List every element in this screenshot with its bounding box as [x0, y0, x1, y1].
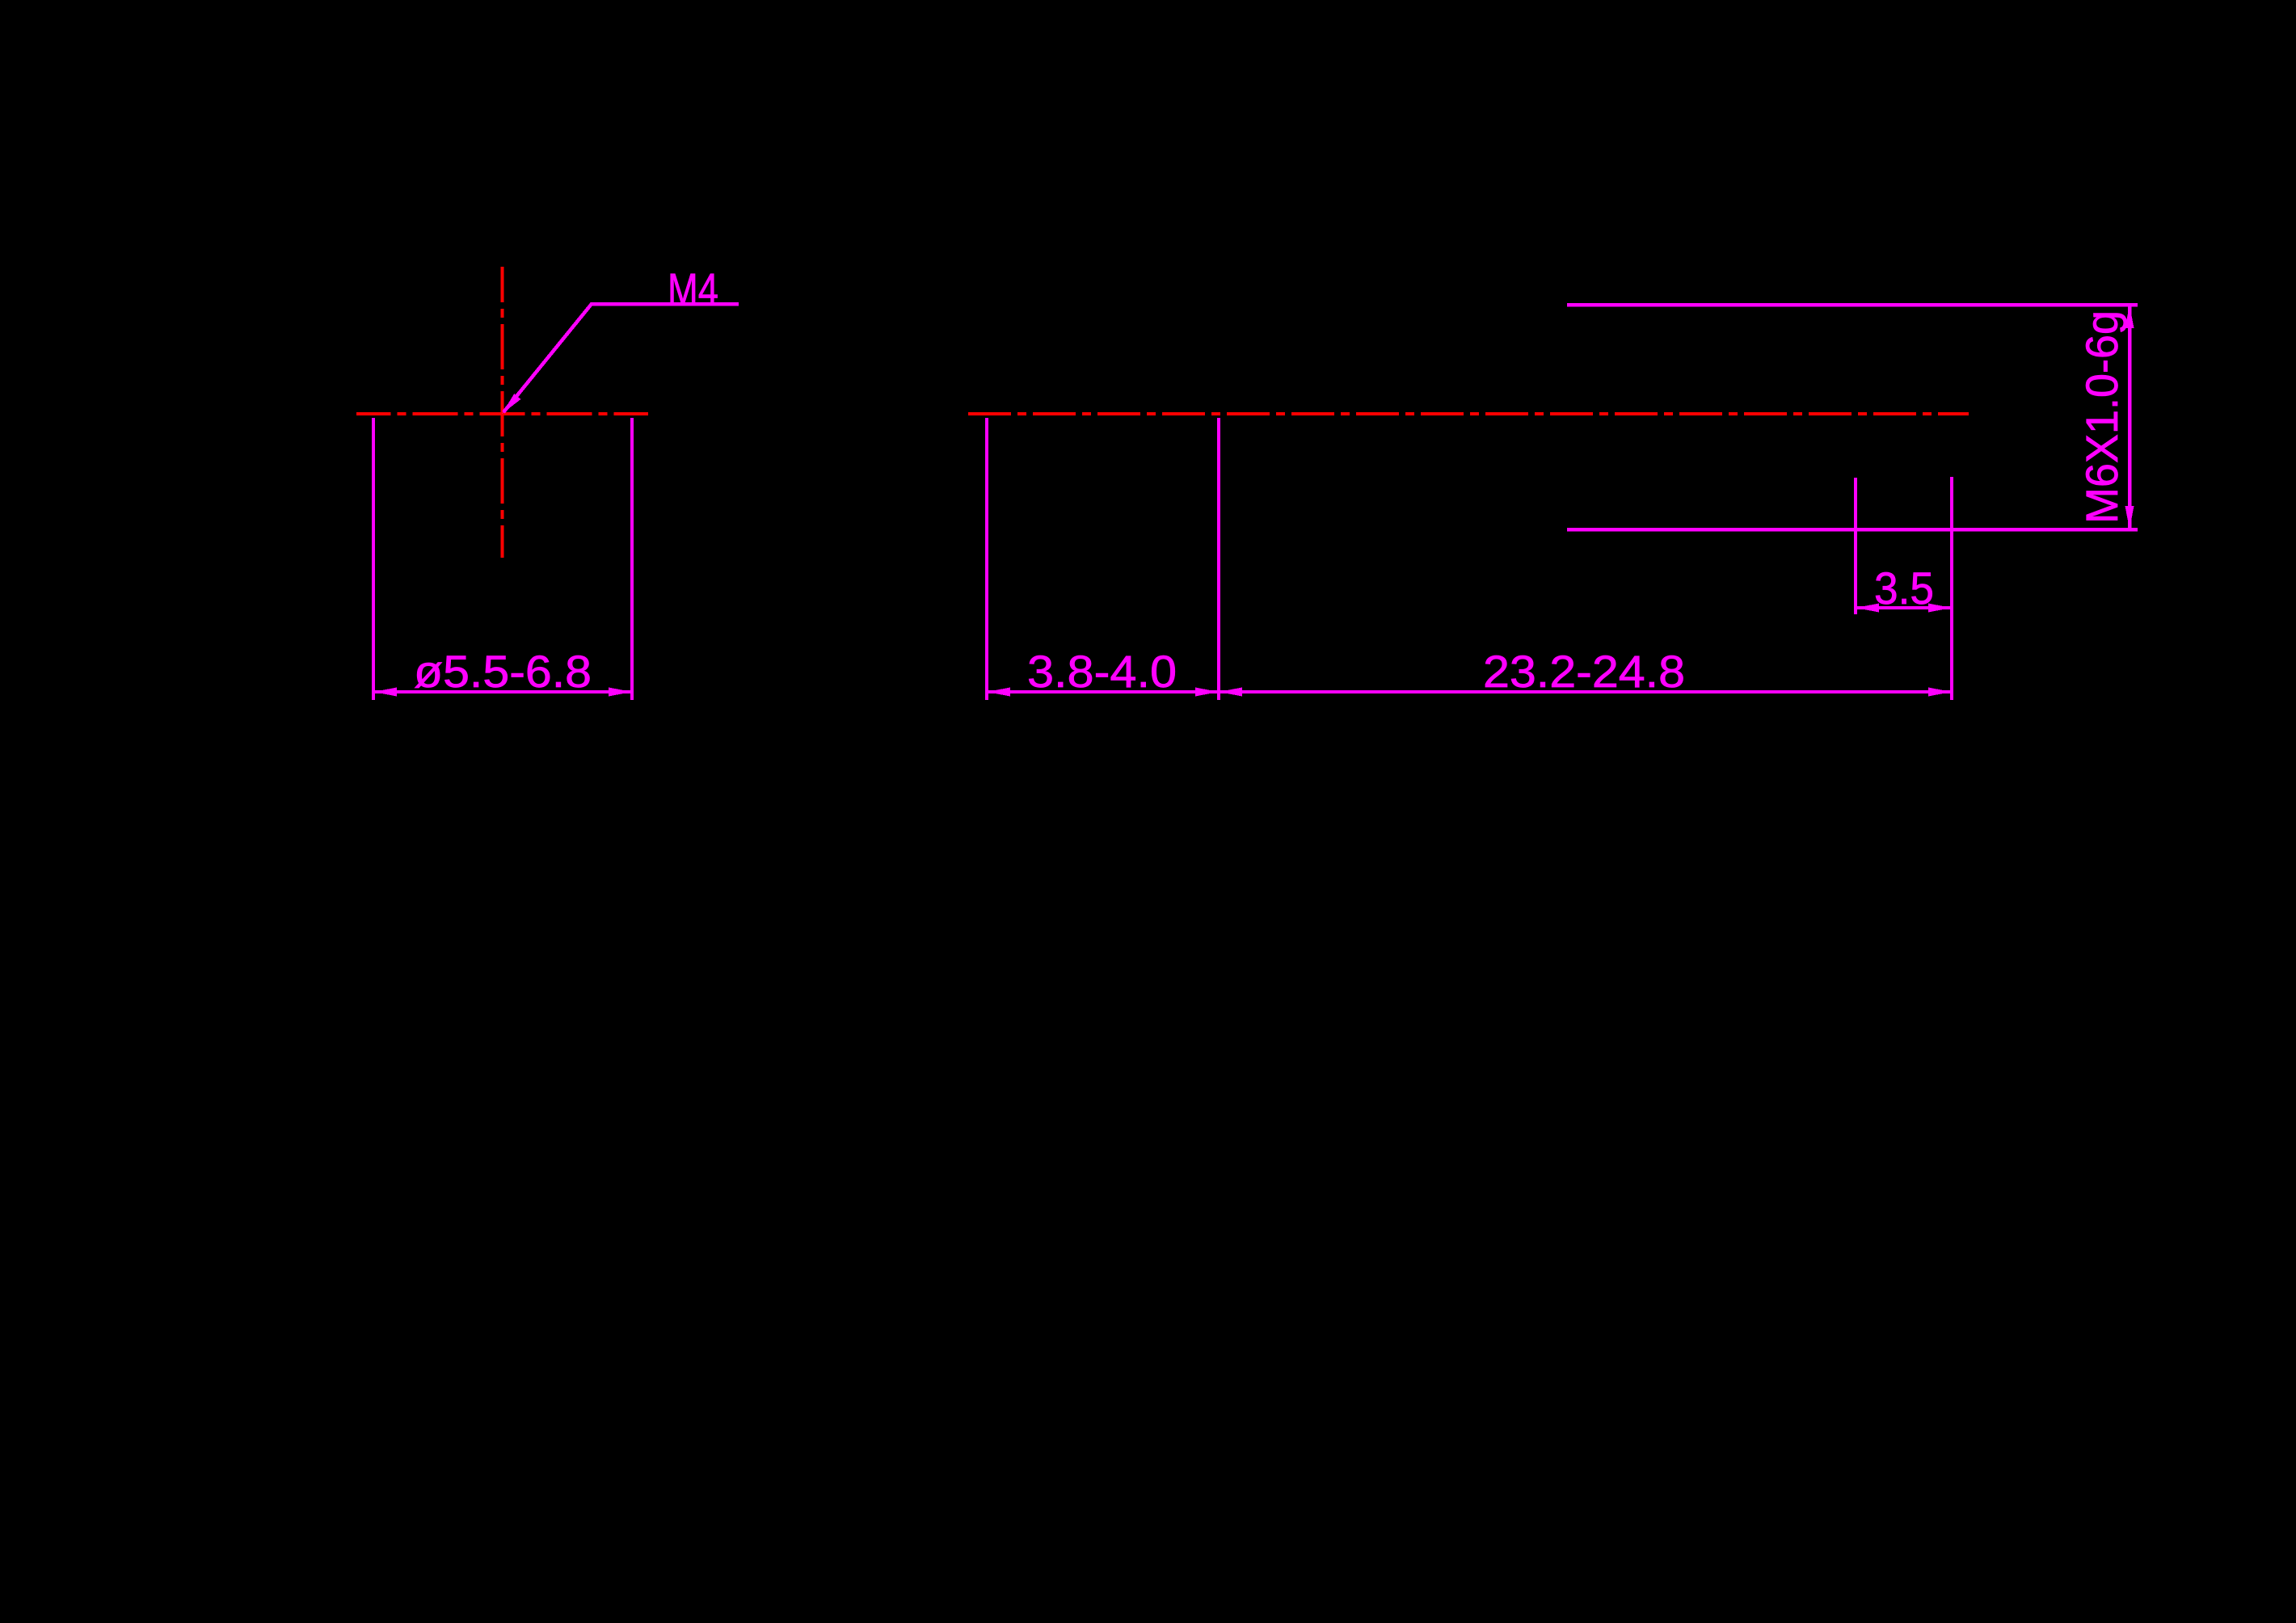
arrowhead right	[1928, 688, 1952, 697]
arrowhead left	[1219, 688, 1242, 697]
horizontal centerline (left view)	[356, 412, 648, 415]
extension line right (3.5 / 23.2-24.8)	[1950, 477, 1953, 700]
svg-text:23.2-24.8: 23.2-24.8	[1483, 646, 1685, 697]
svg-text:3.8-4.0: 3.8-4.0	[1027, 646, 1177, 697]
dimension line 3.5	[1856, 606, 1952, 609]
dimension line 23.2-24.8	[1219, 690, 1952, 693]
leader arrowhead	[502, 394, 521, 414]
svg-text:M6X1.0-6g: M6X1.0-6g	[2076, 310, 2127, 524]
dimension line dia 5.5-6.8	[373, 690, 632, 693]
vertical centerline (left view)	[500, 267, 503, 558]
arrowhead down	[2125, 506, 2134, 529]
arrowhead right	[609, 688, 632, 697]
leader line M4	[503, 304, 739, 412]
dimension line M6X1.0-6g	[2128, 305, 2132, 529]
extension line middle	[1217, 418, 1220, 700]
arrowhead left	[987, 688, 1010, 697]
extension line left (dia 5.5-6.8)	[372, 418, 375, 700]
svg-text:M4: M4	[668, 263, 718, 314]
svg-text:3.5: 3.5	[1874, 563, 1934, 613]
arrowhead left	[373, 688, 397, 697]
extension line left (3.8-4.0)	[985, 418, 988, 700]
arrowhead right	[1195, 688, 1219, 697]
arrowhead up	[2125, 305, 2134, 328]
horizontal centerline (right view)	[968, 412, 1969, 415]
arrowhead left	[1856, 604, 1879, 613]
arrowhead right	[1928, 604, 1952, 613]
extension line left (3.5)	[1854, 478, 1857, 614]
extension line right (dia 5.5-6.8)	[630, 418, 634, 700]
svg-text:ø5.5-6.8: ø5.5-6.8	[414, 646, 592, 697]
dimension line 3.8-4.0	[987, 690, 1219, 693]
thread crest line top	[1567, 303, 2138, 307]
thread crest line bottom	[1567, 528, 2138, 532]
